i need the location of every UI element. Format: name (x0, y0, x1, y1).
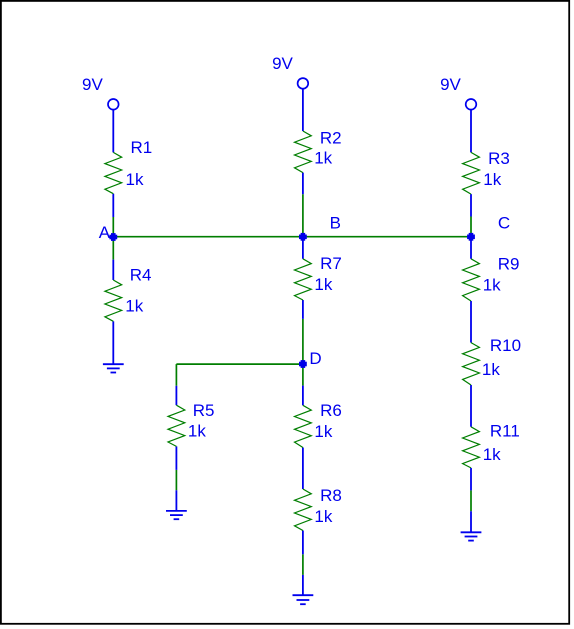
resistor R2 (295, 131, 312, 173)
svg-text:R2: R2 (320, 128, 342, 147)
svg-text:9V: 9V (440, 75, 461, 94)
lead: ground stem below R5 (175, 490, 177, 511)
wire: R8 bottom to ground lead (302, 554, 304, 575)
resistor R5 (168, 405, 185, 446)
lead: ground stem below R11 (470, 511, 472, 532)
svg-text:1k: 1k (482, 360, 500, 379)
lead: R2 bottom (302, 173, 304, 195)
svg-text:D: D (309, 349, 321, 368)
svg-text:1k: 1k (314, 149, 332, 168)
resistor R6 (295, 405, 312, 447)
node B junction dot (299, 233, 307, 241)
node D junction dot (299, 360, 307, 368)
svg-text:C: C (498, 214, 510, 233)
svg-text:B: B (330, 214, 341, 233)
wire: main horizontal net A-B-C (113, 236, 471, 238)
lead: R5 bottom (175, 446, 177, 470)
lead: R6 top (302, 386, 304, 406)
lead: node C to R9 (470, 237, 472, 259)
svg-text:1k: 1k (483, 275, 501, 294)
wire: R7 bottom to node D (302, 319, 304, 364)
resistor R10 (463, 343, 480, 385)
lead: R9 bottom to R10 top (470, 301, 472, 343)
lead: R1 bottom (112, 194, 114, 217)
svg-text:R4: R4 (130, 265, 152, 284)
svg-text:R7: R7 (320, 254, 342, 273)
lead: circle to R1 (112, 110, 114, 153)
svg-text:R1: R1 (131, 138, 153, 157)
lead: R7 bottom (302, 300, 304, 319)
lead: R8 bottom (302, 531, 304, 555)
lead: R6 bottom to R8 top (302, 448, 304, 490)
svg-text:R10: R10 (490, 336, 521, 355)
lead: R5 top (175, 386, 177, 405)
lead: node B to R7 (302, 237, 304, 259)
resistor R3 (463, 152, 480, 194)
lead: circle to R2 (302, 89, 304, 131)
ground (under R4) (103, 364, 124, 372)
wire: above node B (302, 194, 304, 237)
9V terminal circle (middle) (298, 78, 309, 89)
resistor R4 (105, 280, 122, 321)
lead: R3 bottom (470, 194, 472, 216)
svg-text:9V: 9V (272, 54, 293, 73)
svg-text:R5: R5 (193, 401, 215, 420)
svg-text:1k: 1k (314, 275, 332, 294)
ground (under R8) (293, 595, 314, 604)
ground (under R5) (166, 511, 187, 519)
resistor R7 (295, 259, 312, 300)
wire: above node C (470, 217, 472, 237)
svg-text:R3: R3 (488, 149, 510, 168)
lead: R4 top (112, 260, 114, 280)
wire: above node A (112, 217, 114, 237)
9V terminal circle (left) (108, 99, 119, 110)
resistor R11 (463, 427, 480, 468)
wire: horizontal from node D to R5 branch (176, 363, 303, 365)
resistor R9 (463, 259, 480, 301)
svg-text:R9: R9 (498, 254, 520, 273)
lead: R4 bottom to ground (112, 321, 114, 364)
wire: R5 branch vertical below corner (175, 364, 177, 386)
lead: ground stem below R8 (302, 575, 304, 595)
svg-text:1k: 1k (125, 296, 143, 315)
lead: R11 bottom (470, 468, 472, 491)
svg-text:A: A (99, 223, 111, 242)
wire: below node D (302, 364, 304, 386)
svg-text:1k: 1k (188, 422, 206, 441)
lead: circle to R3 (470, 110, 472, 153)
svg-text:1k: 1k (483, 445, 501, 464)
svg-text:1k: 1k (126, 170, 144, 189)
svg-text:1k: 1k (314, 422, 332, 441)
wire: R5 bottom to ground lead (175, 470, 177, 490)
resistor R8 (295, 489, 312, 531)
node A junction dot (109, 233, 117, 241)
wire: R11 bottom to ground lead (470, 490, 472, 511)
svg-text:9V: 9V (82, 75, 103, 94)
wire: below node A (112, 237, 114, 260)
node C junction dot (467, 233, 475, 241)
resistor R1 (105, 152, 122, 193)
svg-text:1k: 1k (483, 170, 501, 189)
svg-text:R8: R8 (320, 486, 342, 505)
svg-text:R11: R11 (490, 422, 520, 441)
lead: R10 bottom to R11 top (470, 385, 472, 427)
svg-text:R6: R6 (320, 401, 342, 420)
ground (under R11) (461, 532, 482, 540)
9V terminal circle (right) (466, 99, 477, 110)
svg-text:1k: 1k (314, 507, 332, 526)
